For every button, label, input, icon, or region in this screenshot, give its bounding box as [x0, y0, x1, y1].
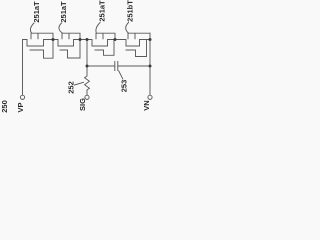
capacitor 253 plates [115, 62, 118, 71]
node dot bottom left [86, 65, 89, 68]
node dot branch [86, 38, 89, 41]
transistor 251aT T2 gate and drain rail [62, 33, 80, 39]
terminal SIG circle [85, 95, 89, 99]
leader label 251aT T2 [59, 23, 62, 33]
transistor 251bT T4 gate and drain rail [128, 33, 150, 39]
transistor 251aT T2 lower plate and lead [60, 40, 80, 59]
svg-text:VN: VN [142, 100, 151, 110]
svg-text:251bT: 251bT [126, 0, 135, 22]
svg-text:252: 252 [67, 81, 76, 94]
svg-text:SIG: SIG [78, 98, 87, 111]
wire bottom rail right of capacitor [118, 65, 150, 67]
svg-text:253: 253 [119, 80, 128, 93]
wire bottom rail left of capacitor [87, 65, 115, 67]
node dot n3 [114, 38, 117, 41]
transistor 251bT T4 lower plate and lead [126, 40, 147, 57]
node dot n1 [52, 38, 55, 41]
terminal VN circle [148, 95, 152, 99]
transistor 251aT T1 lower plate and lead [30, 40, 53, 59]
transistor 251aT T1 gate and drain rail [31, 33, 53, 39]
resistor 252 zigzag [85, 66, 90, 95]
svg-text:251aT: 251aT [32, 1, 41, 23]
node dot n4 [149, 38, 152, 41]
svg-text:251aT: 251aT [98, 0, 107, 22]
leader label 251bT T4 [126, 23, 129, 34]
leader label 252 [75, 82, 84, 85]
wire node to bottom rail [86, 40, 88, 67]
terminal VP circle [20, 95, 24, 99]
wire right vertical to VN [149, 33, 151, 95]
transistor 251aT T3 gate and drain rail [96, 33, 115, 39]
leader label 253 [119, 71, 123, 79]
node dot n2 [79, 38, 82, 41]
node dot bottom right [149, 65, 152, 68]
svg-text:VP: VP [16, 102, 25, 112]
wire main channel line with VP drop [23, 40, 151, 96]
leader label 251aT T1 [30, 23, 34, 33]
transistor 251aT T3 lower plate and lead [95, 40, 114, 56]
leader label 251aT T3 [96, 23, 100, 34]
svg-text:251aT: 251aT [59, 1, 68, 23]
svg-text:250: 250 [0, 100, 9, 113]
